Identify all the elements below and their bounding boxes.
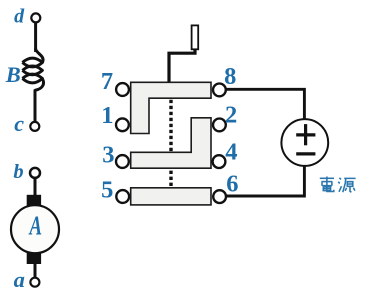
svg-text:5: 5 [101, 177, 113, 204]
svg-text:d: d [14, 6, 25, 28]
contact 3 [116, 155, 129, 168]
svg-text:1: 1 [101, 102, 113, 129]
wire motor to a [34, 262, 37, 278]
contact 4 [213, 155, 226, 168]
svg-text:3: 3 [102, 142, 114, 169]
svg-text:c: c [14, 111, 24, 136]
svg-text:7: 7 [101, 68, 113, 95]
armature bar 5-6 [131, 188, 211, 205]
contact 7 [116, 83, 129, 96]
wire 8 to source [226, 89, 304, 120]
wire d to coil [34, 23, 37, 53]
actuator wire [169, 49, 195, 83]
contact 1 [116, 118, 129, 131]
kanji 電 [320, 177, 334, 179]
power source circle [281, 119, 328, 166]
terminal c [30, 122, 39, 131]
power source minus [296, 152, 315, 155]
contact 5 [116, 190, 129, 203]
terminal b [30, 168, 40, 178]
motor A body [11, 205, 59, 253]
kanji 源 [338, 178, 341, 192]
wire b to motor [34, 178, 37, 196]
svg-text:A: A [28, 210, 42, 241]
label 電源 power supply [320, 177, 356, 193]
wire 6 to source [227, 165, 305, 196]
motor brush top [27, 195, 41, 207]
wire coil to c [34, 90, 37, 122]
svg-text:a: a [14, 267, 25, 292]
svg-text:B: B [5, 62, 21, 87]
svg-text:6: 6 [226, 170, 238, 197]
coil B winding [36, 49, 43, 62]
contact 8 [213, 84, 226, 97]
terminal a [30, 278, 39, 287]
svg-text:4: 4 [225, 139, 237, 166]
actuator handle [192, 25, 199, 49]
armature bar 2 to 3-4 [131, 118, 211, 168]
contact 6 [213, 190, 226, 203]
armature bar 7-8 with leg to 1 [131, 82, 211, 133]
svg-text:b: b [13, 161, 23, 183]
svg-text:8: 8 [224, 63, 236, 90]
terminal d [31, 13, 40, 22]
mechanical link dotted line lower [169, 171, 172, 188]
contact 2 [213, 119, 226, 132]
motor brush bottom [27, 252, 41, 264]
mechanical link dotted line upper [169, 100, 172, 152]
power source plus [296, 133, 315, 136]
svg-text:2: 2 [225, 102, 237, 129]
